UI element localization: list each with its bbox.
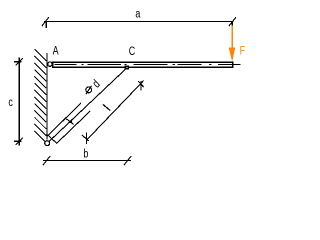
svg-text:A: A [53, 44, 60, 58]
svg-text:a: a [135, 7, 140, 21]
svg-text:b: b [83, 147, 88, 161]
svg-text:C: C [129, 45, 136, 59]
svg-text:F: F [240, 44, 246, 58]
svg-text:c: c [8, 96, 13, 110]
